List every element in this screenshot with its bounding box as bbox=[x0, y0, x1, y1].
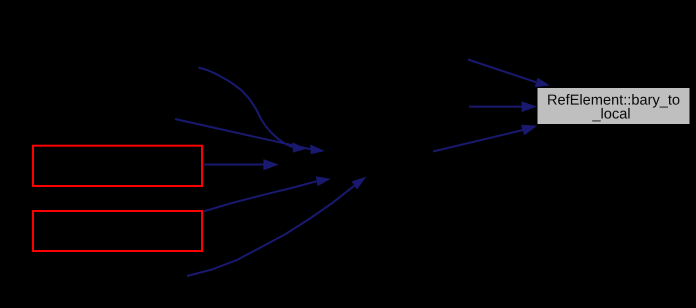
edge 7: horizontal arrow from hidden middle node to gray box left edge bbox=[469, 101, 537, 112]
edge 3: horizontal arrow from red box 1 bbox=[204, 159, 279, 170]
node: red truncated box 1 bbox=[33, 146, 202, 186]
edge 5: long bottom curve to hidden middle node bbox=[187, 177, 366, 276]
edge 8: arrow from hidden middle node to gray box bottom-left bbox=[433, 125, 537, 152]
node: red truncated box 2 bbox=[33, 211, 202, 251]
edge 2: straight line from hidden node to hidden middle node bbox=[175, 119, 325, 154]
edge 4: arrow from red box 2 top-right corner bbox=[204, 176, 331, 211]
edge 1: S-curve from hidden node to hidden middle node bbox=[199, 68, 307, 153]
node: gray current node RefElement::bary_to_local bbox=[537, 88, 690, 125]
edge 6: arrow from hidden middle node to gray box top-left bbox=[468, 60, 550, 88]
